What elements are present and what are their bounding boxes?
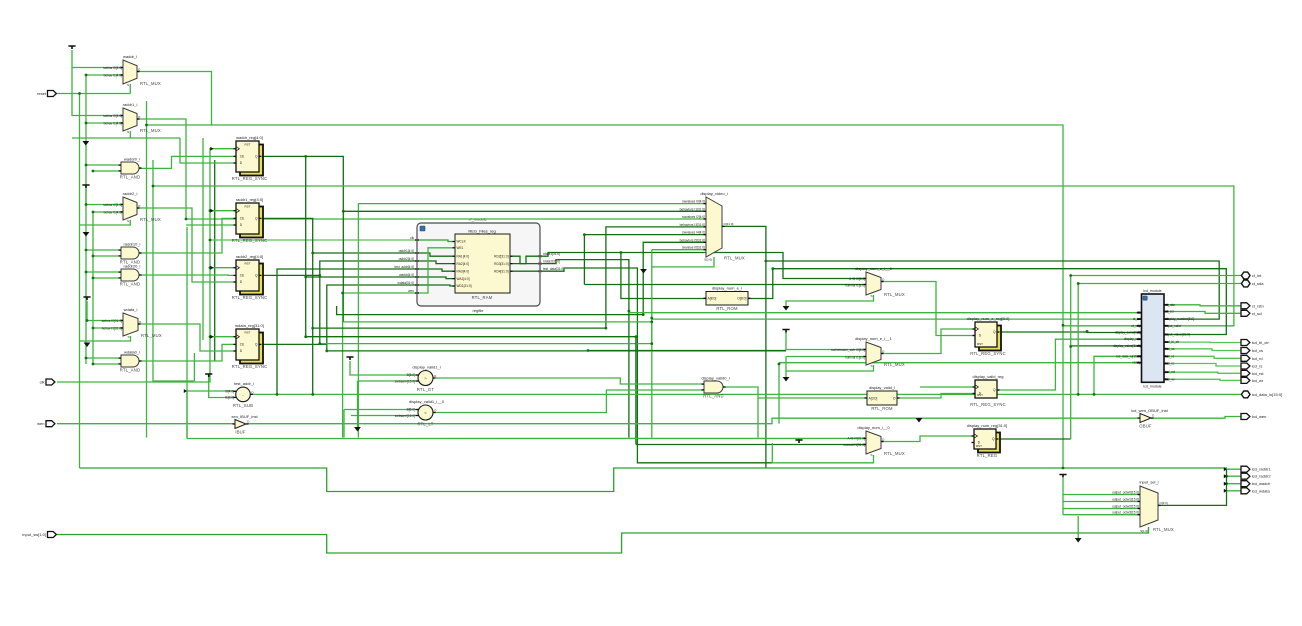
svg-text:raddr1_reg[4:0]: raddr1_reg[4:0]	[236, 197, 263, 202]
junction J12	[92, 327, 95, 330]
svg-text:lcd_module: lcd_module	[1143, 289, 1161, 293]
wire gt I0 from gnd	[350, 361, 418, 375]
input port clk	[40, 379, 55, 385]
svg-text:lcd_raddr1: lcd_raddr1	[1252, 467, 1272, 472]
svg-text:swtmmsswr_swb I0[8:0]: swtmmsswr_swb I0[8:0]	[831, 348, 865, 352]
svg-text:lcd_raddr2: lcd_raddr2	[1252, 474, 1272, 479]
wire lcd clk pin run	[629, 312, 1137, 314]
lcd_module left pins	[1113, 311, 1141, 365]
svg-text:lcd_rs: lcd_rs	[1166, 362, 1175, 366]
power tie T4	[346, 357, 353, 360]
svg-text:numval I1[8:0]: numval I1[8:0]	[845, 356, 865, 360]
svg-text:lcd_rs: lcd_rs	[1252, 364, 1263, 369]
wire gnd to waddr_i I0	[72, 50, 123, 68]
wire reset rail vertical	[79, 94, 81, 469]
svg-text:display_num_reg[31:0]: display_num_reg[31:0]	[967, 423, 1007, 428]
input port wen	[37, 421, 55, 427]
svg-text:raddr20_i: raddr20_i	[124, 264, 141, 269]
junction J49	[311, 327, 314, 330]
power tie T2	[82, 185, 89, 188]
svg-text:regfile: regfile	[473, 308, 485, 313]
svg-text:B[5:0]: B[5:0]	[407, 373, 415, 377]
wire dv input I4	[584, 235, 706, 285]
svg-text:lcd_data_io[15:0]: lcd_data_io[15:0]	[1252, 392, 1282, 397]
wire input_sel I3	[1063, 514, 1140, 516]
svg-text:I0[4:0]: I0[4:0]	[225, 389, 234, 393]
svg-text:RTL_MUX: RTL_MUX	[724, 256, 745, 261]
svg-text:A+B I0[8:0]: A+B I0[8:0]	[849, 277, 865, 281]
wire v765 rail	[765, 261, 767, 468]
junction J44	[605, 327, 608, 330]
wire bus bundle b5	[320, 343, 652, 345]
wire clk stub raddr2_reg	[210, 267, 236, 269]
junction J13	[85, 357, 88, 360]
wire raddr1_reg Q bus	[259, 218, 417, 253]
wire raddr1_i I1 feed	[86, 122, 123, 124]
svg-text:reset: reset	[37, 91, 47, 96]
and gate waddr0_i	[119, 157, 142, 180]
svg-text:waddr0_i: waddr0_i	[124, 157, 140, 162]
svg-text:behaviors I3[31:0]: behaviors I3[31:0]	[680, 223, 705, 227]
wire dn0 select loop	[772, 443, 873, 463]
wire dv input I1 feed	[343, 210, 706, 212]
wire waddr_reg Q bus	[259, 156, 343, 322]
junction J48	[635, 335, 638, 338]
wire raddr20_i input b	[93, 277, 121, 279]
wire lt I1 feed	[351, 415, 418, 417]
svg-text:lcd_waddr: lcd_waddr	[1252, 481, 1271, 486]
junction J37	[771, 267, 774, 270]
wire dne1 select loop	[787, 365, 874, 371]
wire bus bundle b4	[306, 336, 636, 338]
and gate raddr10_i	[119, 242, 142, 265]
wire test_addr output / lcd_data_io net	[251, 393, 1244, 395]
svg-text:RTL_MUX: RTL_MUX	[140, 217, 161, 222]
svg-text:ct_wtp: ct_wtp	[1131, 324, 1140, 328]
svg-text:S: S	[127, 130, 129, 134]
power tie T7	[795, 440, 802, 443]
wire lcd_cs	[1169, 349, 1244, 351]
svg-text:display_valid0_i: display_valid0_i	[701, 376, 729, 381]
ground arrow G4	[354, 427, 361, 432]
svg-text:ct_int: ct_int	[1252, 273, 1262, 278]
svg-text:swbus I0[4:0]: swbus I0[4:0]	[103, 114, 122, 118]
wire raddr1_i select	[129, 131, 131, 138]
wire v758 tail	[757, 398, 759, 438]
wire dne_reg Q riser	[1086, 331, 1088, 334]
wire raddr10_i input a	[86, 249, 121, 251]
svg-text:behav I1[4:0]: behav I1[4:0]	[104, 122, 123, 126]
svg-text:RA2[4:0]: RA2[4:0]	[457, 262, 470, 266]
junction J10	[92, 277, 95, 280]
wire input_sel inputs stem	[1062, 478, 1064, 515]
and gate wdata0_i	[119, 350, 142, 373]
wire wdata_i I0 from gnd	[87, 301, 123, 321]
svg-text:ct_scl: ct_scl	[1166, 310, 1174, 314]
svg-text:swbus I0[31:0]: swbus I0[31:0]	[101, 319, 122, 323]
wire dne branch display_serial	[1087, 332, 1137, 334]
wire ready rail	[778, 363, 780, 424]
svg-text:RTL_ROM: RTL_ROM	[716, 306, 738, 311]
mux display_num_e_i__0	[855, 266, 905, 298]
wire waddr0_i input b	[93, 170, 121, 172]
svg-text:input_value[31:0]: input_value[31:0]	[1166, 333, 1190, 337]
wire rail v93	[92, 212, 94, 364]
inout port ct_sda	[1241, 280, 1264, 287]
wire-entry arrow A2	[210, 266, 213, 270]
svg-text:lcd_wen_OBUF_inst: lcd_wen_OBUF_inst	[1131, 408, 1168, 413]
svg-text:ct_sda: ct_sda	[1252, 281, 1265, 286]
wire dv input I3	[606, 227, 706, 328]
svg-text:RTL_MUX: RTL_MUX	[140, 81, 161, 86]
wire b5 to dne1	[588, 350, 786, 352]
junction J42	[1077, 393, 1080, 396]
output port lcd_cs	[1241, 348, 1263, 354]
wire ct_int pin run	[652, 318, 1137, 320]
svg-text:lcd_cs: lcd_cs	[1166, 347, 1175, 351]
wire regfile RD1 cross	[510, 256, 540, 263]
svg-text:lcd_wr: lcd_wr	[1252, 378, 1264, 383]
junction J22	[145, 124, 148, 127]
junction J34	[1062, 467, 1065, 470]
svg-text:S: S	[870, 364, 872, 368]
ground arrow G8	[1075, 538, 1082, 543]
svg-text:ct_int: ct_int	[1133, 317, 1141, 321]
wire raddr1_i output	[137, 119, 706, 219]
wire lcd_bl_ctr	[1169, 341, 1244, 343]
svg-text:RST: RST	[245, 143, 251, 147]
svg-text:lcd_bl_ctr: lcd_bl_ctr	[1252, 340, 1270, 345]
output port lcd_raddr2	[1241, 473, 1271, 479]
wire lcd_rd	[1169, 356, 1244, 358]
wire wdata_i output	[138, 324, 236, 351]
wire bundle vertical v146	[146, 101, 148, 438]
wire raddr2_i I0 from gnd	[86, 189, 123, 205]
svg-text:RTL_AND: RTL_AND	[120, 282, 140, 287]
junction J46	[650, 321, 653, 324]
wire lt I0 feed	[344, 409, 418, 411]
register display_valid_reg	[970, 374, 1006, 407]
svg-text:O[3:0]: O[3:0]	[1160, 501, 1168, 505]
wire input_sel I1	[1063, 501, 1140, 503]
svg-text:input_valid: input_valid	[1166, 324, 1181, 328]
power tie T5	[205, 374, 212, 377]
svg-text:swvalues I0[4:0]: swvalues I0[4:0]	[682, 200, 705, 204]
inout port lcd_data_io[15:0]	[1241, 391, 1282, 398]
wire-entry arrow A5	[1224, 467, 1227, 471]
svg-text:RST: RST	[245, 205, 251, 209]
wire dn0 gnd stem	[798, 438, 800, 440]
wire raddr2_reg Q bus	[259, 261, 417, 275]
inout port ct_int	[1241, 272, 1262, 279]
wire test_data bus	[540, 268, 772, 463]
wire waddr_i I1 feed	[86, 74, 123, 76]
svg-text:RTL_REG_SYNC: RTL_REG_SYNC	[232, 176, 268, 181]
junction J43	[583, 233, 586, 236]
wire lcd_wen OBUF out	[1151, 417, 1243, 419]
svg-text:lcd_wen: lcd_wen	[1252, 414, 1267, 419]
junction J30	[1069, 345, 1072, 348]
wire select distribution h138	[72, 137, 180, 139]
svg-text:swbswxr[15:0]: swbswxr[15:0]	[395, 380, 415, 384]
wire input_sw run B	[57, 527, 1149, 553]
output port ct_scl	[1241, 310, 1262, 316]
svg-text:ct_rstn: ct_rstn	[1166, 303, 1176, 307]
junction J7	[85, 249, 88, 252]
svg-text:test_addr_i: test_addr_i	[234, 381, 254, 386]
ram REG_Files_reg (RTL_RAM)	[455, 228, 510, 299]
wire clk net	[57, 149, 236, 382]
wire regfile clk to WCLK	[417, 240, 455, 242]
junction J16	[209, 266, 212, 269]
svg-text:O[8:0]: O[8:0]	[737, 297, 746, 301]
junction J50	[304, 335, 307, 338]
svg-text:display_number[5:0]: display_number[5:0]	[1166, 317, 1195, 321]
svg-text:raddr2_i: raddr2_i	[123, 191, 138, 196]
svg-text:RD4[31:0]: RD4[31:0]	[494, 269, 508, 273]
wire test_addr I1 from gnd	[209, 377, 236, 398]
wire raddr2_i I1 feed	[93, 211, 123, 213]
junction J35	[1225, 475, 1228, 478]
wire dn0 I1 feed	[636, 444, 866, 446]
wire raddr1_reg D stub	[186, 224, 236, 226]
wire lcd_rs	[1169, 364, 1244, 367]
junction J31	[1069, 274, 1072, 277]
svg-text:raddr2_reg[4:0]: raddr2_reg[4:0]	[236, 254, 263, 259]
wire-entry arrow A4	[184, 389, 187, 393]
wire raddr2_i output	[137, 208, 236, 282]
svg-text:display_value[31:0]: display_value[31:0]	[1113, 344, 1140, 348]
wire long run to lcd display_number	[766, 261, 1219, 319]
junction J24	[311, 252, 314, 255]
power tie T6	[782, 330, 789, 333]
wire display_value branch	[1071, 345, 1137, 347]
register raddr1_reg[4:0]	[232, 197, 268, 243]
ground arrow G7	[783, 377, 790, 382]
rom display_valid_i	[865, 385, 900, 411]
svg-text:RTL_MUX: RTL_MUX	[140, 128, 161, 133]
svg-text:RTL_AND: RTL_AND	[703, 394, 723, 399]
wire v215 rail	[214, 160, 216, 361]
wire v187 drop	[186, 391, 188, 439]
svg-text:output_octw1[15:0]: output_octw1[15:0]	[1112, 498, 1139, 502]
svg-text:behaviors I1[31:0]: behaviors I1[31:0]	[680, 207, 705, 211]
wire input_sel I0	[1063, 494, 1140, 496]
svg-text:S[1:0]: S[1:0]	[1140, 529, 1148, 533]
junction J47	[650, 342, 653, 345]
wire lcd_wr	[1169, 379, 1244, 380]
svg-text:S[2:0]: S[2:0]	[704, 258, 712, 262]
mux display_num_e_i__1	[855, 336, 905, 368]
junction J27	[765, 260, 768, 263]
wire regfile wen to WE1	[417, 248, 455, 293]
svg-text:lcd_cs: lcd_cs	[1252, 348, 1263, 353]
wire ct_wtp feed	[1063, 325, 1137, 327]
wire gt I1 feed	[358, 380, 419, 382]
svg-text:RTL_LT: RTL_LT	[418, 422, 434, 427]
svg-text:CE: CE	[240, 155, 244, 159]
svg-text:test_addr[4:0]: test_addr[4:0]	[395, 265, 415, 269]
svg-text:RA3[4:0]: RA3[4:0]	[457, 269, 470, 273]
output port lcd_rd	[1241, 355, 1263, 361]
junction J57	[1086, 330, 1089, 333]
register display_num_e_reg[8:0]	[967, 316, 1010, 356]
wire clk stub wdata_reg	[210, 336, 236, 338]
wire v635 drop to dn0	[635, 337, 637, 445]
wire display_valid0 output	[723, 387, 867, 398]
wire wdata_i select	[80, 336, 131, 341]
svg-text:WE1: WE1	[457, 246, 464, 250]
wire ct_rstn	[1169, 305, 1244, 306]
svg-text:output_octw2[15:0]: output_octw2[15:0]	[1112, 505, 1139, 509]
wire input_sel output	[1158, 469, 1227, 505]
svg-text:RTL_MUX: RTL_MUX	[141, 333, 162, 338]
svg-text:RD2[31:0]: RD2[31:0]	[494, 254, 508, 258]
svg-text:swvalue I6[31:0]: swvalue I6[31:0]	[682, 246, 705, 250]
wire dne1 I1 feed	[786, 356, 866, 358]
svg-text:RTL_AND: RTL_AND	[120, 368, 140, 373]
wire input_sel I2	[1063, 508, 1140, 510]
junction J39	[650, 317, 653, 320]
svg-text:CE: CE	[240, 343, 244, 347]
junction J41	[1093, 393, 1096, 396]
svg-text:display_video_i: display_video_i	[700, 191, 727, 196]
svg-text:swbswxr[15:0]: swbswxr[15:0]	[395, 414, 415, 418]
output port lcd_rs	[1241, 363, 1262, 369]
register wdata_reg[31:0]	[232, 323, 268, 369]
module lcd_module	[1142, 289, 1165, 389]
svg-text:O[31:0]: O[31:0]	[724, 222, 734, 226]
svg-text:RA1[4:0]: RA1[4:0]	[457, 254, 470, 258]
wire ct_sda riser	[1078, 284, 1243, 395]
mux input_sel_i	[1138, 480, 1174, 534]
wire clk to regfile	[210, 239, 417, 241]
wire long run to lcd input_value	[773, 269, 1227, 335]
wire wdata0_i output	[139, 344, 236, 361]
ground arrow G3	[84, 343, 91, 348]
wire test_addr I0 feed	[187, 390, 236, 392]
svg-text:display_valid_reg: display_valid_reg	[973, 374, 1004, 379]
svg-text:I1[2:0]: I1[2:0]	[225, 396, 234, 400]
svg-text:wen: wen	[408, 289, 414, 293]
svg-text:display_serial[9:0]: display_serial[9:0]	[1115, 331, 1141, 335]
svg-text:numval I1[8:0]: numval I1[8:0]	[845, 284, 865, 288]
svg-text:A[8:0]: A[8:0]	[708, 297, 717, 301]
junction J38	[587, 349, 590, 352]
svg-text:RST: RST	[245, 331, 251, 335]
junction J23	[304, 276, 307, 279]
junction J52	[325, 350, 328, 353]
ground arrow G9	[916, 418, 923, 423]
svg-text:WA1[4:0]: WA1[4:0]	[457, 277, 470, 281]
svg-text:display_wta: display_wta	[1124, 337, 1141, 341]
svg-text:RST: RST	[245, 262, 251, 266]
wire lcd address run A	[80, 468, 1228, 492]
module rf_module (regfile) outer box	[417, 217, 540, 314]
junction J2	[85, 122, 88, 125]
wire dne_reg Q bus	[997, 331, 1087, 333]
svg-text:ct_scl: ct_scl	[1252, 311, 1262, 316]
junction J18	[209, 239, 212, 242]
register display_num_reg[31:0]	[967, 423, 1007, 458]
rom display_num_e_i	[704, 286, 751, 311]
wire lcd_data_io pin riser	[1094, 356, 1137, 394]
ground arrow G5	[640, 269, 647, 274]
wire bundle vertical v153	[153, 160, 194, 381]
wire lcd_raddr2 stub	[1227, 475, 1244, 477]
junction J33	[1086, 330, 1089, 333]
svg-text:RTL_SUB: RTL_SUB	[233, 403, 253, 408]
wire v651 rail stub	[651, 319, 653, 344]
wire xen IBUF out long run	[247, 418, 1141, 424]
wire long run to lcd input_valid	[153, 186, 1234, 326]
junction J19	[342, 210, 345, 213]
svg-text:RTL_MUX: RTL_MUX	[884, 292, 905, 297]
svg-text:A[3:0]: A[3:0]	[869, 396, 878, 400]
junction J56	[628, 310, 631, 313]
junction J15	[209, 209, 212, 212]
junction J53	[1062, 324, 1065, 327]
wire v1078 stub	[1077, 516, 1079, 538]
wire wdata bus tail	[326, 344, 328, 351]
input port reset	[37, 91, 56, 97]
wire v203 rail	[202, 138, 204, 340]
junction J4	[92, 211, 95, 214]
input port input_sw[1:0]	[22, 532, 56, 538]
svg-text:clk: clk	[1137, 311, 1141, 315]
svg-text:raddr1[4:0]: raddr1[4:0]	[399, 249, 415, 253]
wire waddr_i select stub	[129, 84, 131, 94]
output port ct_rstn	[1241, 303, 1264, 309]
ground arrow G6	[783, 306, 790, 311]
svg-text:lcd_rd: lcd_rd	[1166, 354, 1175, 358]
wire dv input I6	[652, 249, 706, 251]
svg-text:RTL_MUX: RTL_MUX	[884, 362, 905, 367]
junction J29	[311, 393, 314, 396]
svg-text:lcd_bl_ctr: lcd_bl_ctr	[1166, 340, 1181, 344]
and gate raddr20_i	[119, 264, 142, 287]
svg-text:raddr2[4:0]: raddr2[4:0]	[399, 257, 415, 261]
wire long run top to lcd column	[147, 125, 1064, 468]
junction J36	[1225, 482, 1228, 485]
wire v187 long rail	[186, 227, 188, 439]
wire-entry arrow A3	[210, 335, 213, 339]
svg-text:display_num_i__0: display_num_i__0	[857, 425, 890, 430]
wire waddr_reg D feed	[180, 138, 236, 163]
wire regfile raddr2 to RA2	[417, 261, 455, 264]
wire waddr_i output	[137, 72, 212, 126]
svg-text:waddr[4:0]: waddr[4:0]	[399, 273, 414, 277]
wire regfile test_addr to RA3	[417, 269, 455, 271]
wire ready feed	[779, 362, 1137, 364]
output port lcd_raddr1	[1241, 466, 1271, 472]
svg-text:B[5:0]: B[5:0]	[407, 408, 415, 412]
wire wen long rail	[342, 293, 344, 438]
svg-text:display_num_e_i: display_num_e_i	[712, 286, 742, 291]
wire rdata1 branch to ROM addr	[621, 253, 706, 299]
junction J9	[85, 271, 88, 274]
wire-entry arrow A8	[1224, 489, 1227, 493]
wire reset net	[57, 93, 130, 95]
svg-text:CE: CE	[240, 274, 244, 278]
output port lcd_rst	[1241, 370, 1264, 376]
svg-text:OBUF: OBUF	[1139, 424, 1152, 429]
svg-text:wdata[31:0]: wdata[31:0]	[398, 281, 415, 285]
and gate display_valid0_i	[701, 376, 729, 399]
wire swbus rail v86	[85, 75, 87, 364]
junction J0	[78, 92, 81, 95]
svg-text:waddr_reg[4:0]: waddr_reg[4:0]	[236, 135, 263, 140]
